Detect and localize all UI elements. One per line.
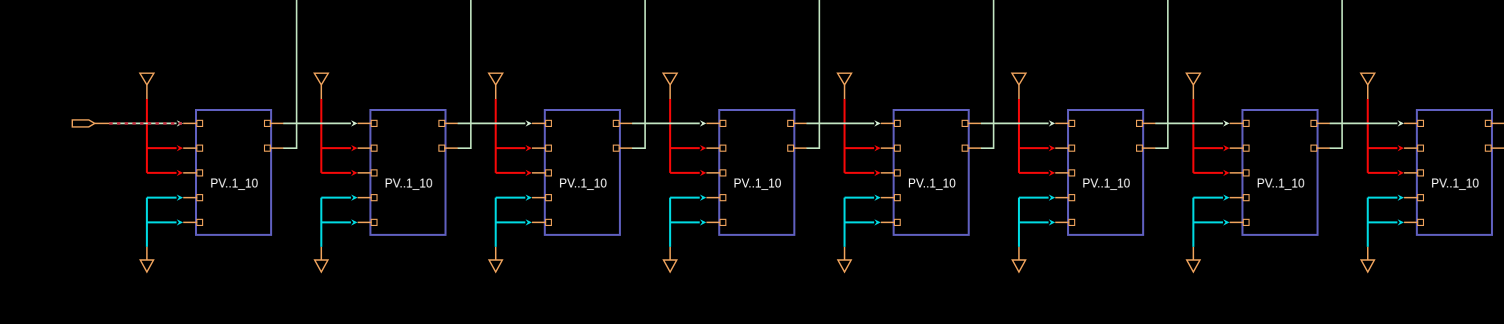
bottom off-page triangle (U8) <box>1361 260 1374 272</box>
module block U8 (PV..1_10) <box>1417 110 1492 235</box>
net wire from U6 out pin to U7 pin 1 <box>1155 120 1229 126</box>
net wire from U3 out pin to U4 pin 1 <box>632 120 706 126</box>
cyan wire into U2 pins 4,5 <box>321 194 357 246</box>
U1 left pin boxes <box>197 120 203 225</box>
U2 left pin stubs <box>358 123 372 222</box>
bottom off-page triangle (U5) <box>838 260 851 272</box>
net wire from U7 out pin to U8 pin 1 <box>1330 120 1404 126</box>
module block U7 (PV..1_10) <box>1242 110 1317 235</box>
bottom off-page triangle (U2) <box>315 260 328 272</box>
svg-text:PV..1_10: PV..1_10 <box>734 176 782 191</box>
off-page connector flag (input) <box>72 120 95 127</box>
net wire up from U4 right pin 2 to sheet top <box>807 0 820 148</box>
top off-page triangle (block U8) <box>1361 73 1375 99</box>
U7 right pin boxes <box>1311 120 1317 151</box>
module block U5 (PV..1_10) <box>894 110 969 235</box>
U3 right pin stubs <box>619 123 633 148</box>
tan stem to bottom triangle (U3) <box>495 247 497 260</box>
U2 right pin stubs <box>444 123 458 148</box>
bottom off-page triangle (U6) <box>1012 260 1025 272</box>
top off-page triangle (block U5) <box>838 73 852 99</box>
U3 right pin boxes <box>613 120 619 151</box>
tan stem to bottom triangle (U1) <box>146 247 148 260</box>
module block U2 (PV..1_10) <box>370 110 445 235</box>
module block U4 (PV..1_10) <box>719 110 794 235</box>
tan lead from flag <box>95 122 110 124</box>
U2 left pin boxes <box>371 120 377 225</box>
U7 left pin boxes <box>1243 120 1249 225</box>
tan stem to bottom triangle (U2) <box>320 247 322 260</box>
U7 right pin stubs <box>1316 123 1330 148</box>
net wire from U1 out pin to U2 pin 1 <box>283 120 357 126</box>
tan stem to bottom triangle (U8) <box>1367 247 1369 260</box>
U2 right pin boxes <box>439 120 445 151</box>
red supply wire into U6 pins 2,3 <box>1019 99 1055 176</box>
svg-text:PV..1_10: PV..1_10 <box>1082 176 1130 191</box>
U5 right pin boxes <box>962 120 968 151</box>
cyan wire into U5 pins 4,5 <box>845 194 881 246</box>
net wire up from U6 right pin 2 to sheet top <box>1155 0 1168 148</box>
net wire from U2 out pin to U3 pin 1 <box>458 120 532 126</box>
module block U3 (PV..1_10) <box>545 110 620 235</box>
red supply wire into U8 pins 2,3 <box>1368 99 1404 176</box>
red supply wire into U1 pins 2,3 <box>147 99 183 176</box>
red supply wire into U3 pins 2,3 <box>496 99 532 176</box>
svg-text:PV..1_10: PV..1_10 <box>908 176 956 191</box>
bottom off-page triangle (U4) <box>663 260 676 272</box>
tan stem to bottom triangle (U6) <box>1018 247 1020 260</box>
net wire from U4 out pin to U5 pin 1 <box>807 120 881 126</box>
cyan wire into U4 pins 4,5 <box>670 194 706 246</box>
U8 right pin boxes <box>1485 120 1491 151</box>
U8 left pin stubs <box>1404 123 1418 222</box>
cyan wire into U1 pins 4,5 <box>147 194 183 246</box>
net wire up from U1 right pin 2 to sheet top <box>283 0 296 148</box>
red supply wire into U2 pins 2,3 <box>321 99 357 176</box>
bottom off-page triangle (U7) <box>1187 260 1200 272</box>
U8 right pin stubs <box>1491 123 1504 148</box>
cyan wire into U3 pins 4,5 <box>496 194 532 246</box>
U7 left pin stubs <box>1230 123 1244 222</box>
U5 left pin stubs <box>881 123 895 222</box>
svg-text:PV..1_10: PV..1_10 <box>1257 176 1305 191</box>
U1 right pin boxes <box>265 120 271 151</box>
red supply wire into U7 pins 2,3 <box>1193 99 1229 176</box>
U4 right pin boxes <box>788 120 794 151</box>
top off-page triangle (block U7) <box>1186 73 1200 99</box>
top off-page triangle (block U6) <box>1012 73 1026 99</box>
red supply wire into U5 pins 2,3 <box>845 99 881 176</box>
tan stem to bottom triangle (U7) <box>1192 247 1194 260</box>
U6 left pin boxes <box>1069 120 1075 225</box>
svg-text:PV..1_10: PV..1_10 <box>1431 176 1479 191</box>
U6 right pin stubs <box>1142 123 1156 148</box>
net wire from U5 out pin to U6 pin 1 <box>981 120 1055 126</box>
U4 left pin stubs <box>706 123 720 222</box>
bottom off-page triangle (U1) <box>140 260 153 272</box>
cyan wire into U7 pins 4,5 <box>1193 194 1229 246</box>
U5 left pin boxes <box>894 120 900 225</box>
bottom off-page triangle (U3) <box>489 260 502 272</box>
top off-page triangle (block U2) <box>314 73 328 99</box>
tan stem to bottom triangle (U5) <box>844 247 846 260</box>
tan stem to bottom triangle (U4) <box>669 247 671 260</box>
top off-page triangle (block U4) <box>663 73 677 99</box>
U3 left pin boxes <box>546 120 552 225</box>
U8 left pin boxes <box>1418 120 1424 225</box>
red supply wire into U4 pins 2,3 <box>670 99 706 176</box>
top off-page triangle (block U1) <box>140 73 154 99</box>
highlighted net wire into U1 pin 1 (green with red dashes) <box>109 120 184 126</box>
svg-text:PV..1_10: PV..1_10 <box>385 176 433 191</box>
net wire up from U3 right pin 2 to sheet top <box>632 0 645 148</box>
U3 left pin stubs <box>532 123 546 222</box>
svg-text:PV..1_10: PV..1_10 <box>559 176 607 191</box>
U4 left pin boxes <box>720 120 726 225</box>
top off-page triangle (block U3) <box>489 73 503 99</box>
U6 left pin stubs <box>1055 123 1069 222</box>
svg-text:PV..1_10: PV..1_10 <box>210 176 258 191</box>
cyan wire into U8 pins 4,5 <box>1368 194 1404 246</box>
net wire up from U5 right pin 2 to sheet top <box>981 0 994 148</box>
U1 right pin stubs <box>270 123 284 148</box>
U4 right pin stubs <box>793 123 807 148</box>
net wire up from U7 right pin 2 to sheet top <box>1330 0 1342 148</box>
module block U6 (PV..1_10) <box>1068 110 1143 235</box>
net wire up from U2 right pin 2 to sheet top <box>458 0 471 148</box>
U1 left pin stubs <box>183 123 197 222</box>
cyan wire into U6 pins 4,5 <box>1019 194 1055 246</box>
U5 right pin stubs <box>967 123 981 148</box>
U6 right pin boxes <box>1137 120 1143 151</box>
module block U1 (PV..1_10) <box>196 110 271 235</box>
